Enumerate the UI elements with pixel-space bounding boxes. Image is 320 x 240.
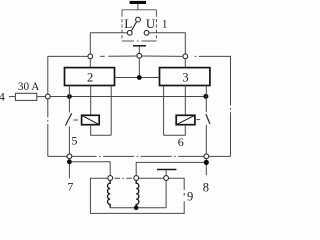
motor unit box 9 xyxy=(90,178,184,213)
svg-text:30 A: 30 A xyxy=(18,81,39,93)
wire from supply bar to switch box xyxy=(137,4,139,10)
node: terminal after fuse xyxy=(45,94,50,99)
wire relay coil 6 bottom loop xyxy=(164,125,186,136)
lower bus wire left segment xyxy=(48,155,67,157)
lower bus chain segment xyxy=(72,155,204,157)
main horizontal bus wire xyxy=(50,96,206,98)
supply terminal bar xyxy=(130,1,146,4)
node: terminal earth side xyxy=(164,176,169,181)
node: terminal right coil xyxy=(134,176,139,181)
switch arm xyxy=(132,22,137,31)
linkage dash 6 xyxy=(196,119,200,121)
wire right bus junction down to box 3 xyxy=(184,59,186,68)
wire junction 7 to left coil xyxy=(72,162,110,176)
upper bus chain segment left-centre xyxy=(93,55,137,57)
svg-text:L: L xyxy=(124,16,132,31)
switch contact L xyxy=(127,30,132,35)
wire lower bus to junction 8 xyxy=(205,159,207,176)
feed lead dash xyxy=(9,96,15,98)
switch contact U xyxy=(144,30,149,35)
svg-text:2: 2 xyxy=(87,70,93,84)
regulator box 2 xyxy=(65,68,115,86)
wire box 3 to relay coil 6 xyxy=(184,86,186,116)
svg-text:6: 6 xyxy=(178,135,184,149)
regulator box 3 xyxy=(160,68,210,86)
wire centre junction down to link wire xyxy=(138,58,140,78)
wire earth bar to coil box xyxy=(165,170,167,175)
wire left bus junction down to box 2 xyxy=(89,59,91,68)
node: terminal on lower bus left xyxy=(67,154,72,159)
wire from contact L to left bus junction xyxy=(90,33,127,54)
earth terminal bar above coil box xyxy=(157,169,176,171)
linkage dash 5 xyxy=(74,119,78,121)
node: junction coil bottoms xyxy=(134,205,139,210)
left boundary chain wire xyxy=(47,56,49,156)
node: terminal left coil xyxy=(108,176,113,181)
upper bus chain segment right corner xyxy=(188,56,231,156)
wire battery tap to centre junction xyxy=(138,47,140,53)
contact arm 6 xyxy=(206,114,210,124)
lower bus wire right segment xyxy=(209,155,231,157)
relay coil 6 xyxy=(176,115,195,124)
field coil right (winding) xyxy=(136,180,139,207)
wire box 3 to junction and switch 6 xyxy=(205,86,207,113)
node: left junction on upper bus xyxy=(88,54,93,59)
node: right junction on upper bus xyxy=(183,54,188,59)
wire switch 6 down to lower bus xyxy=(205,125,207,154)
wire coil bottoms to earth branch xyxy=(110,180,166,207)
node: junction 8 xyxy=(204,160,209,165)
wire lower bus to junction 7 xyxy=(68,159,70,179)
selector switch box 1 (dashed outline) xyxy=(122,10,156,41)
svg-text:8: 8 xyxy=(203,180,209,194)
svg-text:5: 5 xyxy=(71,134,77,148)
node: junction on link wire xyxy=(137,75,142,80)
wire linking box 2 and box 3 xyxy=(115,77,160,79)
wire from contact U to right bus junction xyxy=(149,33,185,54)
wire junction 8 to right coil xyxy=(136,162,204,175)
svg-text:9: 9 xyxy=(187,189,193,203)
wire box 2 to relay coil 5 xyxy=(90,86,92,116)
relay coil 5 xyxy=(82,115,100,124)
svg-text:U: U xyxy=(146,16,156,31)
fuse 30 A xyxy=(15,93,45,100)
node: centre junction on upper bus xyxy=(137,53,142,58)
field coil left (winding) xyxy=(108,180,111,207)
wire box 2 to junction and switch 5 xyxy=(68,86,70,113)
node: terminal on lower bus right xyxy=(204,154,209,159)
svg-text:7: 7 xyxy=(67,180,73,194)
svg-text:4: 4 xyxy=(0,89,5,103)
upper bus wire centre-right xyxy=(142,55,183,57)
node: junction bus / contact 5 branch xyxy=(67,94,72,99)
node: junction bus / contact 6 branch xyxy=(203,94,208,99)
upper bus wire left segment xyxy=(48,55,88,57)
wire box 3 first output down xyxy=(163,86,165,136)
svg-text:3: 3 xyxy=(182,70,188,84)
switch pivot contact (top) xyxy=(136,17,141,22)
wire box 2 third output down xyxy=(110,86,112,136)
battery tap symbol below switch box xyxy=(133,45,146,47)
contact arm 5 xyxy=(65,113,71,125)
svg-text:1: 1 xyxy=(162,19,168,31)
node: junction 7 xyxy=(67,159,72,164)
wire relay coil 5 bottom loop xyxy=(91,125,112,136)
wire switch 5 down to lower bus xyxy=(68,126,70,153)
